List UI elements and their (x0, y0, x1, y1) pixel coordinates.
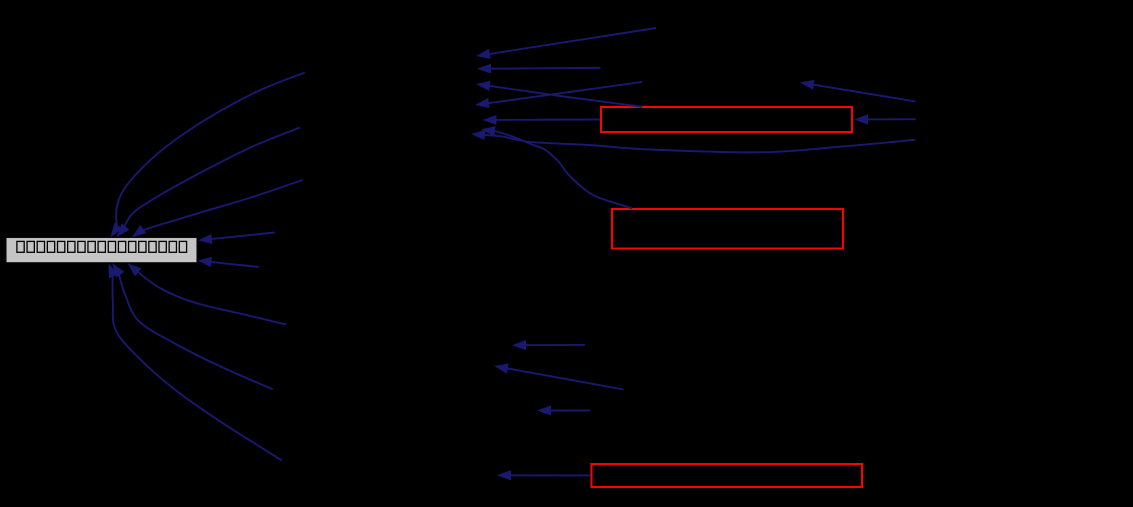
edge b2: middle bottom curve into gray node bottom edge (112, 263, 273, 389)
edge e_g: diagonal from right column (800, 80, 916, 102)
node: red box 3 (bottom) (592, 464, 863, 487)
edge e_box1: horizontal from red box 1 left edge (483, 115, 601, 125)
edge g4: horizontal from red box 3 left edge (497, 470, 591, 480)
edge g2: diagonal arrow (bottom group) (494, 364, 624, 390)
node: central file (gray box) (6, 238, 197, 263)
label: 17 missing-glyph (tofu) boxes inside gray node (17, 241, 187, 252)
node: red box 1 (top right) (601, 107, 852, 132)
edge e_c: from red box 1 top edge into middle-column node (476, 81, 642, 107)
edge c2: middle top curve into gray node top edge (117, 128, 301, 238)
edge c1: outer top curve into gray node top edge (111, 73, 305, 238)
edge e_a: long diagonal into middle-column node (476, 28, 656, 59)
edge e_b: horizontal into middle-column node (477, 64, 601, 74)
edge e_f: long arc from right column to middle column (471, 130, 916, 152)
edge g3: horizontal arrow (bottom group) (537, 405, 590, 415)
edge c5: short arrow into gray node right edge (lower) (198, 257, 259, 267)
edge b1: inner bottom curve into gray node bottom edge (128, 263, 287, 324)
edge g1: horizontal arrow (bottom group) (512, 340, 585, 350)
edge e_box2: S-curve from red box 2 top-left corner (481, 126, 632, 208)
edge c3: inner top curve into gray node top edge (132, 180, 303, 237)
edge e_h: horizontal into red box 1 right edge (854, 114, 916, 124)
node: red box 2 (middle) (612, 209, 843, 249)
edge c4: short arrow into gray node right edge (upper) (198, 233, 275, 245)
edge e_d: crossing diagonal into middle-column node (475, 82, 642, 108)
edge b3: outer bottom curve into gray node bottom edge (108, 263, 282, 460)
